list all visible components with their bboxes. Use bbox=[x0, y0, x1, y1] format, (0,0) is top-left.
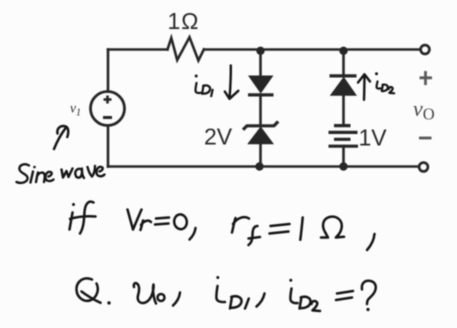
handwritten label iD2 bbox=[375, 72, 394, 93]
node junction dot bottom branch1 bbox=[255, 162, 263, 170]
handwritten label Sine wave bbox=[17, 164, 105, 183]
node junction dot top branch1 bbox=[256, 47, 264, 55]
arrow iD2 up bbox=[358, 74, 370, 100]
wire branch1 vertical top bbox=[259, 50, 262, 77]
wire branch2 vertical bottom bbox=[342, 146, 345, 167]
wire top-left horizontal bbox=[108, 48, 168, 51]
V of Vr bbox=[128, 210, 142, 230]
wire left vertical lower bbox=[107, 126, 110, 167]
period bbox=[107, 301, 110, 304]
wire left vertical upper bbox=[107, 50, 110, 92]
node junction dot top branch2 bbox=[339, 47, 347, 55]
equals bbox=[270, 224, 290, 234]
arrow iD1 down bbox=[225, 66, 239, 99]
minus sign output bbox=[419, 137, 432, 140]
handwritten equation line2: Q. vo, iD1, iD2 = ? bbox=[76, 276, 375, 311]
f subscript of rf bbox=[249, 226, 261, 245]
question mark bbox=[362, 281, 376, 304]
diode D1 cathode bar bbox=[248, 93, 274, 96]
node junction dot bottom branch2 bbox=[339, 162, 347, 170]
wire bottom horizontal bbox=[108, 165, 418, 168]
source V1 minus sign bbox=[103, 116, 112, 119]
handwritten label iD1 bbox=[195, 75, 213, 97]
r of rf bbox=[232, 217, 249, 232]
terminal top output bbox=[421, 45, 430, 54]
source V1 sine circle bbox=[91, 92, 125, 126]
comma raised bbox=[173, 293, 180, 306]
wire branch1 vertical middle bbox=[259, 95, 262, 126]
equals bbox=[336, 291, 353, 300]
wire branch2 vertical top bbox=[342, 50, 345, 76]
wire branch2 vertical middle bbox=[342, 95, 345, 125]
comma bbox=[190, 228, 196, 240]
svg-text:1V: 1V bbox=[359, 125, 388, 151]
plus sign output bbox=[420, 71, 433, 85]
script v of vo bbox=[134, 283, 156, 303]
comma bbox=[257, 294, 265, 307]
2 subscript bbox=[312, 301, 321, 311]
svg-text:2V: 2V bbox=[204, 124, 233, 150]
equals bbox=[155, 218, 169, 225]
zero bbox=[173, 214, 188, 230]
one bbox=[300, 218, 302, 240]
D subscript bbox=[230, 296, 242, 308]
resistor R 1ohm zigzag bbox=[168, 37, 204, 60]
trailing comma bbox=[367, 234, 375, 250]
svg-text:1Ω: 1Ω bbox=[168, 8, 199, 34]
omega bbox=[321, 217, 344, 238]
r subscript of Vr bbox=[141, 221, 152, 231]
diode D2 cathode bar bbox=[330, 74, 357, 77]
o subscript bbox=[158, 294, 165, 301]
D subscript bbox=[300, 297, 311, 309]
battery 1V plates bbox=[329, 126, 359, 147]
arrow to source sine wave bbox=[54, 126, 68, 149]
diode D1 triangle bbox=[249, 76, 273, 93]
i of iD2 bbox=[290, 289, 297, 304]
source V1 plus sign bbox=[104, 96, 112, 104]
1 subscript bbox=[245, 299, 249, 309]
Q bbox=[76, 278, 97, 300]
wire top-right horizontal bbox=[204, 48, 420, 51]
zener DZ 2V bar bbox=[243, 122, 278, 130]
word if bbox=[70, 213, 73, 230]
handwritten equation line1: if Vr=0, rf=1 ohm, bbox=[70, 202, 375, 250]
terminal bottom output bbox=[419, 163, 428, 172]
wire branch1 vertical bottom bbox=[259, 144, 262, 167]
diode D2 triangle bbox=[331, 78, 356, 96]
i of iD1 bbox=[216, 286, 225, 302]
zener DZ 2V triangle bbox=[248, 127, 273, 144]
